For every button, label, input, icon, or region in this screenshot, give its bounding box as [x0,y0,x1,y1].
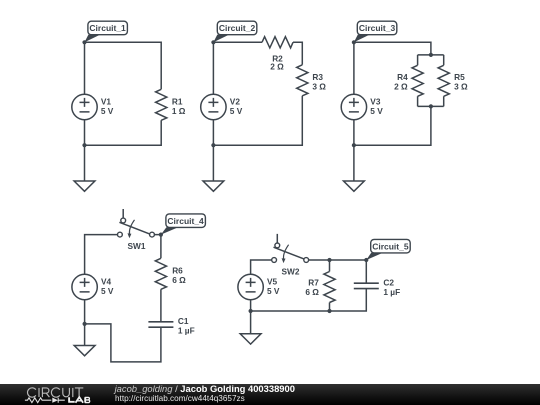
svg-text:V3: V3 [370,96,381,106]
svg-text:Circuit_1: Circuit_1 [89,23,126,33]
svg-text:6 Ω: 6 Ω [305,287,319,297]
svg-text:Circuit_5: Circuit_5 [372,241,409,251]
svg-text:1 µF: 1 µF [383,287,400,297]
svg-text:Circuit_4: Circuit_4 [167,216,204,226]
svg-text:SW1: SW1 [128,241,146,251]
svg-text:V2: V2 [230,96,241,106]
svg-text:V5: V5 [267,276,278,286]
svg-text:3 Ω: 3 Ω [454,81,468,91]
svg-text:1 Ω: 1 Ω [172,106,186,116]
svg-text:2 Ω: 2 Ω [394,81,408,91]
svg-text:V4: V4 [101,276,112,286]
svg-text:1 µF: 1 µF [178,325,195,335]
svg-text:3 Ω: 3 Ω [312,81,326,91]
svg-text:Circuit_2: Circuit_2 [219,23,256,33]
svg-text:5 V: 5 V [267,286,280,296]
svg-text:SW2: SW2 [282,266,300,276]
svg-text:5 V: 5 V [101,286,114,296]
svg-text:2 Ω: 2 Ω [270,62,284,72]
svg-text:5 V: 5 V [101,106,114,116]
svg-text:6 Ω: 6 Ω [172,275,186,285]
svg-text:5 V: 5 V [230,106,243,116]
svg-text:Circuit_3: Circuit_3 [359,23,396,33]
svg-text:5 V: 5 V [370,106,383,116]
svg-text:V1: V1 [101,96,112,106]
